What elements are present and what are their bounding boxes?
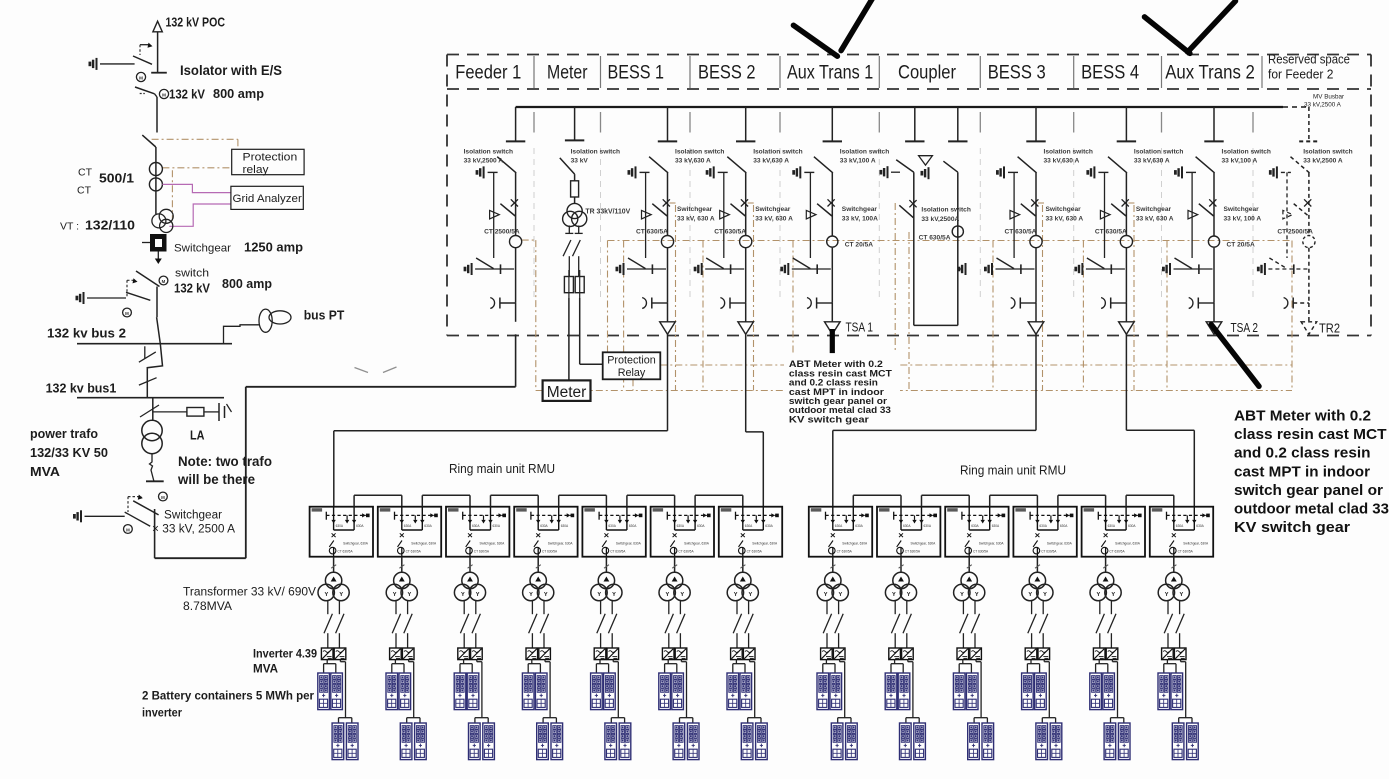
ring jumper [695,495,743,506]
cable termination [642,298,646,309]
isolation switch blade [814,157,833,173]
svg-text:KV switch gear: KV switch gear [1234,520,1350,536]
trafo neutral earth [146,454,164,482]
132kV switch w/ E/S [77,271,168,317]
line disconnector [142,135,156,147]
RMU group 1 unit 5 [582,507,645,557]
svg-text:CT 20/5A: CT 20/5A [845,242,873,249]
svg-text:CT: CT [77,185,92,197]
svg-text:33 kV: 33 kV [571,158,589,165]
CT [952,226,963,237]
PCS column group 1-3 [454,557,494,760]
label Transformer 33kV/690V [183,585,317,614]
svg-text:Reserved space: Reserved space [1268,53,1350,67]
leads to meter [568,298,570,380]
svg-text:relay: relay [243,164,270,176]
RMU group 2 unit 6 [1150,507,1213,557]
cable termination [720,298,724,309]
busbar drop [515,107,517,141]
label isolation switch [753,149,802,165]
CT [509,236,521,248]
RMU group 2 unit 1 [809,507,872,557]
svg-text:33 kV, 100A: 33 kV, 100A [842,216,878,223]
VT TR 33kV/110V [567,203,582,218]
svg-text:Isolation switch: Isolation switch [1044,149,1093,156]
svg-text:TSA 2: TSA 2 [1231,320,1259,335]
switchboard outline (dashed enclosure) [447,55,1371,336]
earth switch [1088,166,1095,178]
svg-text:CT 630/5A: CT 630/5A [636,229,668,236]
svg-text:Switchgear: Switchgear [174,243,231,255]
RMU group 2 unit 4 [1013,507,1076,557]
svg-text:CT 2500/5A: CT 2500/5A [484,229,520,236]
RMU group 1 unit 4 [514,507,577,557]
lower earth switch [465,263,472,275]
svg-text:Meter: Meter [547,384,587,401]
svg-text:Aux Trans 1: Aux Trans 1 [787,63,873,84]
svg-text:Ring main unit RMU: Ring main unit RMU [449,462,555,476]
ring jumper [853,495,901,506]
annotation arrow at Aux Trans 1 [793,0,874,56]
CT [1303,236,1315,248]
cable arrow [660,322,676,335]
svg-text:132 kv bus1: 132 kv bus1 [46,381,117,396]
label CT CT 500/1 [77,167,134,197]
Meter box [543,380,591,401]
bay Coupler [881,107,971,325]
svg-text:Grid Analyzer: Grid Analyzer [233,193,303,205]
svg-text:BESS 4: BESS 4 [1081,63,1139,84]
svg-text:Switchgear: Switchgear [842,206,878,213]
label 132 kV 800 amp [169,86,264,102]
svg-text:class resin cast MCT: class resin cast MCT [1234,427,1387,443]
svg-text:M: M [125,311,129,316]
earthing path [809,172,811,258]
tan protection tap [152,139,238,220]
svg-text:Switchgear: Switchgear [755,206,791,213]
isolation switch blade [1196,157,1215,173]
isolation switch blade [1291,157,1310,173]
svg-text:Switchgear: Switchgear [677,206,713,213]
annotation arrow at Aux Trans 2 [1145,1,1236,53]
svg-text:Inverter 4.39: Inverter 4.39 [253,647,317,661]
Protection relay box (132kV) [232,149,304,176]
CT [827,236,838,247]
earth switch [477,166,484,178]
ring jumper [422,495,470,506]
label isolation switch [464,149,513,165]
lower earth switch [695,263,702,275]
svg-text:MVA: MVA [253,662,278,676]
contact [1188,210,1198,219]
label battery containers [142,689,314,720]
svg-text:M: M [161,495,165,500]
cable termination [1101,298,1105,309]
VT 132/110 [152,209,173,232]
main conductor [1213,173,1215,236]
bay Aux Trans 1 [782,107,890,334]
bay Reserved Feeder 2 (TR2) [1258,107,1352,334]
svg-text:33 kV,630 A: 33 kV,630 A [753,158,789,165]
label Reserved space for Feeder 2 [1268,53,1350,82]
svg-text:500/1: 500/1 [99,171,134,186]
svg-text:33 kV,2500 A: 33 kV,2500 A [464,158,504,165]
svg-text:TR 33kV/110V: TR 33kV/110V [585,209,630,216]
isolation switch blade [1018,157,1037,173]
main conductor [1125,173,1127,236]
svg-text:Isolation switch: Isolation switch [1134,149,1183,156]
LV fuses [564,277,573,293]
earthing path [723,172,725,258]
svg-text:Isolation switch: Isolation switch [753,149,802,156]
RMU group 2 unit 3 [945,507,1008,557]
CT 2 [149,178,162,191]
svg-text:power trafo: power trafo [30,426,98,441]
ring jumper [559,495,607,506]
132kV breaker [135,87,169,99]
PCS column group 1-2 [386,557,426,760]
cable termination [1011,298,1015,309]
secondary leads [568,226,570,234]
svg-text:VT :: VT : [60,221,79,233]
gray sketch marks [355,367,397,373]
isolation switch blade [649,157,668,173]
label switchgear [755,206,793,223]
label isolation switch [921,207,970,224]
busbar drop [1213,107,1215,141]
circuit breaker [741,199,748,206]
svg-text:and 0.2 class resin: and 0.2 class resin [1234,446,1371,462]
label isolation switch [571,149,620,165]
annotation bar at TSA 1 [830,329,835,353]
lower earth switch [617,263,624,275]
cable termination [490,298,494,309]
svg-text:33 kV,100 A: 33 kV,100 A [840,158,876,165]
isolation switch blade [497,157,516,173]
svg-text:TR2: TR2 [1319,321,1340,336]
svg-text:33 kV,630 A: 33 kV,630 A [675,158,711,165]
busbar drop [745,107,747,141]
svg-text:Isolation switch: Isolation switch [840,149,889,156]
svg-text:outdoor metal clad 33: outdoor metal clad 33 [1234,502,1389,518]
PCS column group 1-7 [727,557,767,760]
svg-text:CT 2500/5A: CT 2500/5A [1277,229,1313,236]
earth switch [997,166,1004,178]
svg-text:Isolation switch: Isolation switch [1222,149,1271,156]
svg-text:Transformer 33 kV/ 690V: Transformer 33 kV/ 690V [183,585,317,599]
svg-text:Coupler: Coupler [898,63,957,84]
PCS column group 2-5 [1090,557,1130,760]
ABT note (small, at TSA1) [784,353,900,427]
busbar drop [667,107,669,141]
wire BESS3 to RMU group2 [833,334,1036,506]
svg-text:Feeder 1: Feeder 1 [455,63,521,84]
CT 1 [149,163,162,176]
annotation arrow at TSA 2 [1211,325,1259,387]
svg-text:800 amp: 800 amp [213,86,264,101]
label switchgear [677,206,715,223]
33kV switchgear [74,492,167,558]
earthing path [1104,172,1106,258]
RMU group 2 unit 2 [877,507,940,557]
bus tie [139,317,163,398]
cable termination [1189,298,1193,309]
svg-text:33 kV,2500 A: 33 kV,2500 A [1303,158,1343,165]
busbar drop [1035,107,1037,141]
svg-text:Protection: Protection [243,151,298,163]
svg-text:Isolator with E/S: Isolator with E/S [180,63,282,78]
PCS column group 2-3 [953,557,993,760]
PCS column group 1-4 [522,557,562,760]
ring jumper [1126,495,1174,506]
svg-text:1250 amp: 1250 amp [244,240,303,255]
label isolation switch [840,149,889,165]
bay Aux Trans 2 [1163,107,1271,334]
label Switchgear 1250 amp [174,240,303,255]
svg-text:Ring main unit RMU: Ring main unit RMU [960,464,1066,478]
label isolation switch [1222,149,1271,165]
contact [720,210,730,219]
RMU group 1 unit 6 [651,507,714,557]
isolation switch blade [560,158,575,174]
earthing path [1286,172,1288,258]
earthing path [493,172,495,258]
CT [1208,236,1219,247]
busbar drop [1125,107,1127,141]
CT [1030,236,1042,248]
label power trafo [30,426,108,479]
isolation switch blade [727,157,746,173]
RMU group 1 unit 3 [446,507,509,557]
bus PT [224,309,292,344]
cable arrow [1206,322,1222,335]
svg-text:CT 630/5A: CT 630/5A [1095,229,1127,236]
contact [1010,210,1020,219]
RMU group 1 unit 1 [310,507,373,557]
svg-text:M: M [162,279,166,284]
RMU group 2 unit 5 [1082,507,1145,557]
earth switch [1270,166,1277,178]
svg-text:Isolation switch: Isolation switch [675,149,724,156]
lower earth switch [1163,263,1170,275]
svg-text:132 kV: 132 kV [169,87,205,102]
svg-text:switch: switch [175,268,209,280]
circuit breaker [1122,199,1129,206]
bay BESS 2 [695,107,803,334]
main conductor [1308,173,1310,236]
isolation switch blade [1108,157,1127,173]
cable arrow [1119,322,1135,335]
svg-text:33 kV,2500A: 33 kV,2500A [921,216,959,223]
circuit breaker [909,200,916,207]
svg-text:Isolation switch: Isolation switch [571,149,620,156]
earth switch [629,166,636,178]
label isolation switch [1044,149,1093,165]
PCS column group 1-1 [318,557,358,760]
bay Meter [560,107,631,380]
earth switch [1175,166,1182,178]
MV busbar 33kV 2500A [516,106,1309,108]
ring jumper [990,495,1038,506]
svg-text:CT 630/5A: CT 630/5A [1005,229,1037,236]
lower earth switch [782,263,789,275]
circuit breaker [1031,199,1038,206]
svg-text:switch gear panel or: switch gear panel or [1234,483,1383,499]
svg-text:2 Battery containers 5 MWh per: 2 Battery containers 5 MWh per [142,689,314,703]
label note [177,454,272,487]
label switchgear [1224,206,1262,223]
circuit breaker [511,199,518,206]
svg-text:Protection: Protection [607,355,656,367]
CT [740,236,752,248]
circuit breaker [828,199,835,206]
ring jumper [1058,495,1106,506]
main 132kV conductor [156,97,158,133]
svg-text:M: M [162,93,166,98]
label Switchgear 33 kV, 2500 A [152,510,235,536]
isolator with E/S [90,43,153,82]
Protection Relay box [603,352,661,379]
svg-text:132/110: 132/110 [85,218,135,233]
svg-text:cast MPT in indoor: cast MPT in indoor [1234,464,1370,480]
bay BESS 3 [985,107,1093,334]
svg-text:Switchgear: Switchgear [1136,206,1172,213]
RMU group 1 unit 2 [378,507,441,557]
svg-text:Meter: Meter [547,63,588,84]
main conductor [745,173,747,236]
svg-text:33 kV, 630 A: 33 kV, 630 A [1046,216,1084,223]
svg-text:33 kV, 630 A: 33 kV, 630 A [1136,216,1174,223]
transformer feeder disconnector [140,398,159,420]
bay separators [534,56,1262,302]
wire BESS4 to RMU group2 end [1126,334,1194,506]
main conductor [667,173,669,236]
main conductor [831,173,833,236]
grid analyzer wiring (magenta) [162,184,231,226]
protection CT wiring (tan) [522,203,1292,391]
earth switch [707,166,714,178]
svg-text:ABT Meter with 0.2: ABT Meter with 0.2 [1234,409,1371,425]
svg-text:KV switch gear: KV switch gear [789,414,870,424]
label switchgear [842,206,878,223]
svg-text:Isolation switch: Isolation switch [464,149,513,156]
label isolation switch [1134,149,1183,165]
label isolation switch [1303,149,1352,165]
svg-text:M: M [126,528,130,533]
circuit breaker [663,199,670,206]
PCS column group 2-6 [1158,557,1198,760]
circuit breaker [1209,199,1216,206]
cable termination [1284,298,1288,309]
earth switch [794,166,801,178]
bay Feeder 1 [464,107,526,322]
lower earth switch [985,263,992,275]
MV Busbar label [1304,93,1344,108]
svg-text:33 kV,2500 A: 33 kV,2500 A [1304,102,1342,109]
label VT : 132/110 [60,218,135,233]
svg-text:800 amp: 800 amp [222,276,272,291]
fuse [571,181,579,197]
PCS column group 1-5 [591,557,631,760]
earthing path [1013,172,1015,258]
ring jumper [627,495,675,506]
contact [642,210,652,219]
label switch 132 kV 800 amp [174,268,272,296]
lower earth switch [1076,263,1083,275]
svg-text:inverter: inverter [142,706,182,720]
cable arrow [1301,322,1317,335]
bay BESS 4 [1076,107,1184,334]
CT [661,236,673,248]
svg-text:8.78MVA: 8.78MVA [183,599,233,613]
svg-text:CT: CT [78,167,93,179]
ring jumper [922,495,970,506]
svg-text:132 kv bus 2: 132 kv bus 2 [47,326,126,341]
contact [806,210,816,219]
132 kv bus 2 [77,343,232,345]
PCS column group 2-2 [885,557,925,760]
wire BESS2 to RMU group1 end [746,334,764,506]
svg-text:CT 20/5A: CT 20/5A [1227,242,1255,249]
svg-text:M: M [139,76,143,81]
circuit breaker [1304,199,1311,206]
svg-text:33 kV, 630 A: 33 kV, 630 A [755,216,793,223]
svg-text:for Feeder 2: for Feeder 2 [1268,68,1333,82]
busbar drop [1308,107,1310,141]
svg-text:MVA: MVA [30,464,61,479]
svg-text:BESS 3: BESS 3 [988,63,1046,84]
svg-text:Isolation switch: Isolation switch [921,207,970,214]
cable arrow [1028,322,1044,335]
PCS column group 2-4 [1022,557,1062,760]
svg-text:LA: LA [190,428,205,443]
PCS column group 1-6 [659,557,699,760]
svg-text:Aux Trans 2: Aux Trans 2 [1165,63,1255,84]
main conductor [1035,173,1037,236]
132 kV POC terminal [151,21,167,72]
cable arrow [919,156,933,165]
ABT note (large, right) [1234,409,1389,537]
svg-text:132/33 KV 50: 132/33 KV 50 [30,445,108,460]
svg-text:132 kV: 132 kV [174,281,210,296]
132 kv bus1 [77,397,224,399]
label switchgear [1046,206,1084,223]
cable arrow [825,322,841,335]
power transformer 132/33 [142,420,162,453]
cable termination [807,298,811,309]
earthing path [1191,172,1193,258]
lower earth switch [1258,263,1265,275]
Grid Analyzer box [231,186,303,209]
label isolation switch [675,149,724,165]
svg-text:33 kV,630 A: 33 kV,630 A [1044,158,1080,165]
svg-text:Switchgear: Switchgear [1046,206,1082,213]
ring jumper [491,495,539,506]
contact [490,210,500,219]
svg-text:Switchgear: Switchgear [164,510,222,522]
svg-text:33 kV,100 A: 33 kV,100 A [1222,158,1258,165]
RMU group 1 unit 7 [719,507,782,557]
svg-text:33 kV,630 A: 33 kV,630 A [1134,158,1170,165]
svg-text:will be there: will be there [177,472,255,487]
svg-text:× 33 kV, 2500 A: × 33 kV, 2500 A [152,524,235,536]
svg-text:33 kV, 100 A: 33 kV, 100 A [1224,216,1262,223]
busbar drop [831,107,833,141]
ring jumper [354,495,402,506]
main conductor [515,173,517,236]
contact [1100,210,1110,219]
svg-text:Switchgear: Switchgear [1224,206,1260,213]
